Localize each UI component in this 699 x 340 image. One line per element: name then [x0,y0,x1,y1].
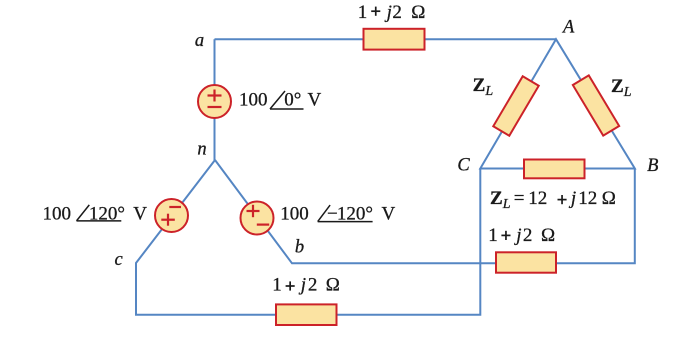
svg-text:B: B [647,156,658,176]
svg-text:Ω: Ω [541,225,555,246]
svg-text:2: 2 [308,274,318,295]
svg-text:c: c [114,250,123,270]
svg-text:100: 100 [280,203,309,224]
svg-text:12: 12 [528,188,547,209]
svg-text:L: L [484,84,493,99]
svg-text:C: C [457,155,470,175]
svg-text:12: 12 [578,188,597,209]
svg-text:Z: Z [490,188,503,209]
svg-text:V: V [382,203,396,224]
svg-text:Ω: Ω [602,188,616,209]
svg-text:L: L [623,85,632,100]
svg-text:120°: 120° [337,203,373,224]
svg-text:a: a [195,31,204,51]
svg-text:b: b [295,238,304,258]
svg-text:2: 2 [523,225,533,246]
svg-text:100: 100 [43,203,72,224]
svg-text:Ω: Ω [411,2,425,23]
svg-text:120°: 120° [89,203,125,224]
svg-text:n: n [197,140,206,160]
svg-text:V: V [308,90,322,111]
svg-text:L: L [502,197,511,212]
svg-text:0°: 0° [284,90,301,111]
svg-text:Z: Z [611,76,624,97]
svg-text:=: = [514,188,525,209]
svg-text:1: 1 [272,274,282,295]
svg-text:2: 2 [392,2,402,23]
svg-text:V: V [133,203,147,224]
svg-text:A: A [561,18,575,38]
svg-text:1: 1 [488,225,498,246]
svg-text:Z: Z [473,75,486,96]
svg-text:Ω: Ω [326,274,340,295]
svg-text:100: 100 [239,90,268,111]
svg-text:1: 1 [358,2,368,23]
